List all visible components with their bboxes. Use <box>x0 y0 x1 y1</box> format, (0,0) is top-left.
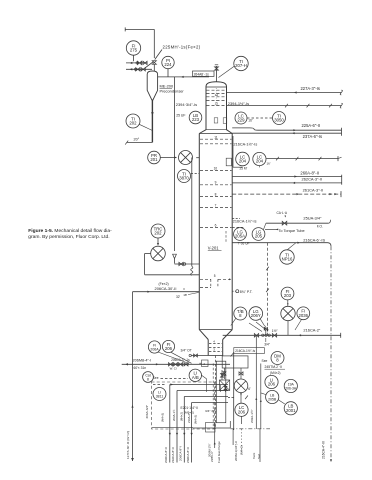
svg-text:(M4×2): (M4×2) <box>270 371 281 375</box>
relief valve on precondenser <box>152 61 156 71</box>
wire line 262CA <box>232 175 342 185</box>
wire line 237A <box>232 128 341 136</box>
wire reboiler pipe 2 <box>176 391 228 463</box>
svg-text:206: 206 <box>238 409 246 414</box>
wire line 260A <box>232 175 342 177</box>
valves on manifold <box>249 322 277 337</box>
svg-text:205B: 205B <box>268 398 277 402</box>
wire bottom connector <box>206 423 216 433</box>
label 225MH line number <box>155 45 201 60</box>
svg-text:8: 8 <box>147 378 149 382</box>
label 60ft <box>134 366 147 370</box>
rotated labels mid pipes <box>161 409 198 424</box>
svg-text:32': 32' <box>176 295 181 299</box>
column tray 7 <box>200 203 232 207</box>
svg-text:6: 6 <box>215 223 217 227</box>
label 25 UF <box>176 113 185 117</box>
column main shell <box>199 134 232 330</box>
wire to torque tube <box>265 228 305 232</box>
svg-text:261CA-3"-II: 261CA-3"-II <box>303 188 323 193</box>
svg-text:206M-1(3/4")-II: 206M-1(3/4")-II <box>234 441 238 461</box>
label 3/4 OT <box>181 349 192 353</box>
instrument bubble FI-206 <box>162 340 191 363</box>
instrument bubble LC-204 <box>253 152 266 167</box>
caption figure 1-5 <box>28 228 112 240</box>
svg-text:1½": 1½" <box>272 329 279 333</box>
svg-text:A/B: A/B <box>192 375 199 380</box>
instrument bubble LG-205 <box>252 228 265 241</box>
wire top side draw left <box>174 77 176 251</box>
svg-text:205A: 205A <box>235 234 245 239</box>
label E201 <box>181 406 199 415</box>
svg-text:225MH'-1s(Fe×2): 225MH'-1s(Fe×2) <box>163 45 201 50</box>
instrument bubble LG-205A <box>234 228 247 241</box>
instrument bubble TI-3870 <box>178 170 200 183</box>
svg-text:5: 5 <box>214 274 216 278</box>
wire overhead vapor line to precondenser <box>158 76 209 78</box>
valve on line 1 <box>137 61 147 64</box>
relief valve on column top <box>215 65 219 82</box>
valve on line 2 <box>136 68 146 71</box>
instrument bubble 19A-206 <box>284 379 297 392</box>
svg-text:(M4×2): (M4×2) <box>240 445 244 455</box>
svg-text:18': 18' <box>183 293 187 297</box>
instrument bubble LB-2001 <box>284 402 297 415</box>
svg-text:2036: 2036 <box>299 313 309 318</box>
svg-text:202: 202 <box>154 231 162 236</box>
nozzle 8-3/4 PT <box>232 290 253 295</box>
instrument bubble TI-207 <box>219 56 249 77</box>
svg-text:(M4×2): (M4×2) <box>180 412 184 421</box>
svg-text:275: 275 <box>130 48 138 53</box>
svg-text:262CA-3"-II: 262CA-3"-II <box>302 177 322 182</box>
svg-text:204: 204 <box>256 159 264 164</box>
svg-text:11: 11 <box>214 135 218 139</box>
label 216CA-2 <box>303 327 321 332</box>
wire bottoms manifold <box>223 333 341 338</box>
label 237A-6-Is <box>303 134 322 139</box>
wire dashed equalizer <box>266 243 269 336</box>
svg-text:Fuel Gas Purge: Fuel Gas Purge <box>217 441 221 463</box>
svg-text:V-201: V-201 <box>208 246 219 251</box>
wire top overhead line <box>125 27 154 58</box>
label 3/4 SPL <box>205 409 217 413</box>
svg-text:7: 7 <box>215 203 217 207</box>
check valve on left leg <box>173 254 177 263</box>
column bottom head and boot <box>199 330 232 356</box>
wire drop line 209A <box>250 336 257 429</box>
svg-text:205: 205 <box>255 234 263 239</box>
label 32ft <box>176 295 181 299</box>
column tray 11 <box>200 135 232 143</box>
svg-text:2394·3/4"-Is: 2394·3/4"-Is <box>176 102 197 107</box>
svg-text:227A-3"-Is: 227A-3"-Is <box>301 86 320 91</box>
svg-text:See: See <box>262 359 268 363</box>
svg-text:237A-6"-Is: 237A-6"-Is <box>303 134 322 139</box>
svg-text:206CA-8"-I: 206CA-8"-I <box>179 446 183 461</box>
instrument bubble LB-205B <box>261 390 285 404</box>
wire line 261CA dashed <box>232 191 341 197</box>
control valve reflux <box>151 246 166 261</box>
column tray 5 chimney <box>200 274 231 288</box>
wire riser to relief valve <box>143 62 153 70</box>
column left level taps <box>183 263 199 298</box>
svg-text:225A-6"-II: 225A-6"-II <box>302 123 321 128</box>
instrument bubble TI-3050 <box>247 112 286 125</box>
instrument bubble TB-8 <box>231 307 247 326</box>
instrument bubble LC-204A <box>233 136 249 167</box>
instrument bubble FI-275 <box>126 41 140 61</box>
svg-text:224: 224 <box>164 62 172 67</box>
label 20 deg <box>134 138 140 142</box>
wire dashed see leader <box>161 378 189 380</box>
wire line 225A <box>232 128 341 131</box>
svg-text:3050: 3050 <box>274 118 284 123</box>
svg-text:207-H: 207-H <box>235 63 247 68</box>
svg-text:25 M': 25 M' <box>240 167 248 171</box>
control valve top draw <box>179 151 193 165</box>
svg-text:(M4×2): (M4×2) <box>194 415 198 424</box>
instrument bubble TRC-202 <box>151 224 165 246</box>
label Fe x2 feed <box>159 282 169 286</box>
svg-text:209A-1½": 209A-1½" <box>250 409 254 423</box>
wire chain 2 <box>287 300 289 307</box>
wire feed riser <box>131 292 134 461</box>
svg-text:3/4": 3/4" <box>264 342 271 346</box>
svg-text:1177A·30'·III (W"×2): 1177A·30'·III (W"×2) <box>126 431 130 459</box>
svg-text:229: 229 <box>237 118 245 123</box>
label V-201 <box>208 246 222 251</box>
label 206M8-4-I <box>133 359 152 363</box>
instrument bubble TI on line <box>280 243 296 265</box>
svg-text:25UA-3/4": 25UA-3/4" <box>303 216 322 221</box>
wire reboiler pipe 1 <box>153 383 228 462</box>
column tray 8 <box>200 192 232 196</box>
control valve bottoms product <box>234 368 251 403</box>
svg-text:CA·L·A: CA·L·A <box>277 211 288 215</box>
wire boot outlet line <box>213 356 215 430</box>
svg-text:245TM-2´·II: 245TM-2´·II <box>265 365 283 369</box>
svg-text:206CA-30'-II: 206CA-30'-II <box>155 286 177 291</box>
wire valve line 2 <box>126 68 152 70</box>
wire reboiler pipe 3 <box>183 397 228 463</box>
instrument bubble LG-206Y <box>249 307 266 331</box>
bottom rotated labels right cluster <box>210 441 261 463</box>
svg-text:216CA-1½"-Is: 216CA-1½"-Is <box>234 142 258 146</box>
label 206CA-C-1s <box>171 358 190 362</box>
svg-text:206A: 206A <box>150 348 159 352</box>
label 25UA-3/4 <box>303 216 323 229</box>
svg-text:25 UF: 25 UF <box>176 113 185 117</box>
wire line 227A <box>227 90 343 95</box>
svg-text:216CA-6´-IS: 216CA-6´-IS <box>303 238 325 243</box>
label 260A-8-II <box>300 171 319 176</box>
svg-text:10: 10 <box>214 167 218 171</box>
svg-text:206CA-C´-1s: 206CA-C´-1s <box>171 358 190 362</box>
instrument bubble Det-8 <box>271 352 284 365</box>
wire reflux return <box>175 262 185 265</box>
wire draw down leg <box>191 158 193 267</box>
svg-text:260A-8"-II: 260A-8"-II <box>300 171 319 176</box>
svg-text:(M4×2): (M4×2) <box>161 413 165 422</box>
svg-text:2001: 2001 <box>286 408 296 413</box>
svg-text:206: 206 <box>268 382 276 387</box>
label 7 05UF <box>238 241 250 245</box>
instrument bubble LI-A/B <box>189 369 207 392</box>
label ME-200 <box>160 83 185 93</box>
instrument bubble FI-2036 <box>295 307 310 330</box>
svg-text:6': 6' <box>248 387 251 391</box>
svg-text:206A-3/4": 206A-3/4" <box>145 405 149 419</box>
svg-text:60'× 31n: 60'× 31n <box>134 366 147 370</box>
svg-text:3/4" 3P2: 3/4" 3P2 <box>205 409 217 413</box>
label 25M under LC <box>240 162 271 171</box>
label 2394-3/4 line number <box>176 102 197 107</box>
svg-text:223: 223 <box>192 117 200 122</box>
svg-text:236CA-8"-II: 236CA-8"-II <box>186 447 190 463</box>
wire reboiler box bottom line <box>152 427 193 429</box>
svg-text:202: 202 <box>129 121 137 126</box>
svg-text:E201·1·4"·II: E201·1·4"·II <box>181 406 199 410</box>
label box 264A8-1s <box>193 71 215 76</box>
svg-text:16': 16' <box>267 162 271 166</box>
svg-text:216A-2": 216A-2" <box>187 413 191 423</box>
instrument bubble PI-224 <box>162 56 174 77</box>
label 216CA-1-1/2-Is lower <box>232 219 256 224</box>
svg-text:201: 201 <box>150 157 158 162</box>
boot stub valve <box>189 354 208 357</box>
label CAL A <box>277 211 288 217</box>
svg-text:206A-1½: 206A-1½ <box>172 409 176 421</box>
wire line 2394 right <box>227 103 343 108</box>
valve 25UA <box>282 221 287 225</box>
svg-text:206: 206 <box>165 346 173 351</box>
label 216CA-1-1/2-Is upper <box>234 142 258 146</box>
instrument bubble FI-203 <box>281 287 294 300</box>
boot drain box 2 <box>199 360 208 367</box>
instrument bubble Cat-8 <box>143 372 159 383</box>
wire right vertical dashdot <box>322 246 333 462</box>
wire reboiler pipe 4 <box>191 403 228 463</box>
label 216CA-6-IS <box>303 238 325 243</box>
column V-201 top section shell <box>206 82 227 130</box>
svg-text:gram. By permission, Fluor Cor: gram. By permission, Fluor Corp. Ltd. <box>28 234 109 240</box>
column tray 10 <box>196 158 231 171</box>
svg-text:16': 16' <box>248 119 253 123</box>
instrument bubble LI-206 <box>265 375 278 388</box>
instrument bubble LC-206 <box>235 403 248 424</box>
svg-text:8¾" P.T.: 8¾" P.T. <box>240 290 253 294</box>
instrument bubble TI-202 <box>126 114 152 131</box>
wire line from LC204 <box>266 156 341 161</box>
svg-text:204: 204 <box>239 159 247 164</box>
valves on reboiler feed <box>169 363 189 371</box>
svg-text:3/4" OT: 3/4" OT <box>181 349 192 353</box>
reboiler package dashed box <box>152 382 215 429</box>
column internal boxes <box>214 118 227 124</box>
label 206CA-30-II <box>155 286 177 291</box>
vertical valve left drop <box>223 368 226 379</box>
wire drop line B <box>260 364 262 430</box>
column chimney tray box <box>0 0 1 1</box>
svg-text:216CA-2": 216CA-2" <box>303 327 321 332</box>
svg-text:206M8-4"-I: 206M8-4"-I <box>133 359 152 363</box>
label 206A-3/4 rotated <box>145 405 149 419</box>
svg-text:NP16: NP16 <box>282 257 293 262</box>
svg-text:7' 05 UF: 7' 05 UF <box>238 241 250 245</box>
svg-text:W. Cl: W. Cl <box>170 367 177 371</box>
svg-text:II: II <box>183 287 185 291</box>
svg-text:To Torque Tube: To Torque Tube <box>279 229 305 233</box>
manifold drop box tall <box>216 352 234 430</box>
svg-text:216CA-1½"-Is: 216CA-1½"-Is <box>235 349 255 353</box>
svg-text:206Y: 206Y <box>251 313 261 318</box>
label 262CA-3-II <box>302 177 322 182</box>
svg-text:203: 203 <box>284 293 292 298</box>
svg-text:216CA-8"-II: 216CA-8"-II <box>171 447 175 463</box>
instrument bubble LC-229 <box>235 112 253 124</box>
control valve bottoms <box>281 306 295 320</box>
column tray 6 <box>200 223 244 242</box>
instrument bubble FI-206A <box>148 341 189 364</box>
svg-text:20°: 20° <box>134 138 140 142</box>
svg-text:9: 9 <box>215 181 217 185</box>
svg-text:206M-1½": 206M-1½" <box>208 443 212 457</box>
instrument bubble LB-223 <box>189 111 202 124</box>
column transition cone <box>199 130 232 134</box>
label 225A-6-II <box>302 123 321 128</box>
wire bottom horizontal <box>193 421 270 429</box>
label 1-1/2 manifold <box>272 329 279 333</box>
vertical valves right of pipes <box>221 384 228 392</box>
svg-text:Vent: Vent <box>252 453 256 459</box>
svg-text:206-3H: 206-3H <box>285 387 297 391</box>
wire feed line <box>133 291 200 293</box>
svg-text:3811: 3811 <box>156 395 164 399</box>
wire reboiler feed line <box>122 363 230 365</box>
svg-text:See: See <box>153 376 159 380</box>
svg-text:Figure 1-5. Mechanical detail: Figure 1-5. Mechanical detail flow dia- <box>28 228 112 234</box>
instrument bubble PR-201 <box>148 151 177 164</box>
wire chain 3 <box>287 321 289 336</box>
svg-text:F.O.: F.O. <box>317 224 323 228</box>
label 2394-1-1/2-Is <box>228 101 249 106</box>
label 227A-3-Is <box>301 86 320 91</box>
svg-text:216CA-4"-III: 216CA-4"-III <box>322 441 326 459</box>
instrument bubble LI-3811 <box>153 388 166 401</box>
wire valve line 1 <box>126 62 148 64</box>
label 261CA-3-II <box>303 188 323 193</box>
label 1177A rotated <box>126 431 130 459</box>
svg-text:8: 8 <box>215 192 217 196</box>
bottoms sump box <box>222 356 248 368</box>
svg-text:Precondenser: Precondenser <box>160 89 185 94</box>
wire line 216CA-6 <box>232 242 331 247</box>
wire bottom stub lines <box>214 423 260 462</box>
svg-text:206CA-8"-II: 206CA-8"-II <box>164 447 168 463</box>
bottom rotated labels left cluster <box>164 443 212 463</box>
wire outlet run left <box>125 141 152 145</box>
label set 245TM <box>262 359 286 375</box>
label 3/4 below manifold <box>264 338 271 346</box>
manifold drop box small <box>220 370 230 390</box>
column tray 9 <box>200 181 232 185</box>
svg-text:216CA-1½"-Is: 216CA-1½"-Is <box>233 220 257 224</box>
wire precondenser outlet <box>151 100 154 142</box>
label box 216CA-1-1/2-Is <box>231 348 265 357</box>
vessel ME-200 precondenser <box>147 71 157 100</box>
svg-text:264A8´-1s: 264A8´-1s <box>194 72 210 76</box>
wire reflux piping <box>145 254 200 275</box>
column top section trays <box>207 88 227 106</box>
svg-text:3870: 3870 <box>179 176 189 181</box>
wire line 25UA <box>264 220 331 230</box>
